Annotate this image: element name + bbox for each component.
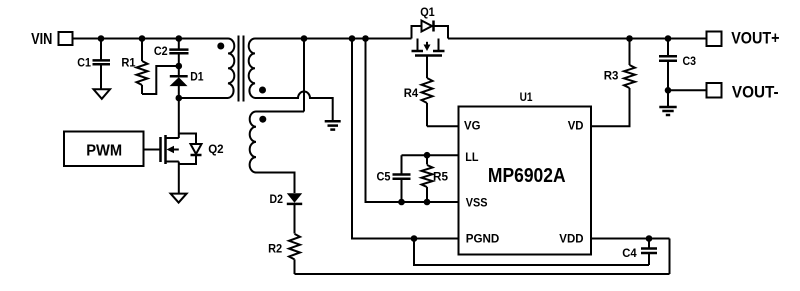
terminal pad VOUT+ (707, 32, 722, 47)
wire C4 return to PGND (414, 239, 649, 266)
wire LL row (402, 154, 459, 156)
node C2/D1/R1 junction (176, 63, 183, 70)
svg-text:R4: R4 (404, 86, 418, 100)
svg-text:R2: R2 (268, 242, 282, 256)
svg-text:LL: LL (465, 150, 479, 164)
IC U1 box (459, 107, 592, 255)
resistor R2 (289, 234, 300, 274)
svg-text:C1: C1 (77, 55, 91, 69)
transformer polarity dot auxiliary (259, 116, 266, 123)
svg-text:Q2: Q2 (208, 142, 223, 156)
junction C3 bottom (665, 87, 672, 94)
svg-text:C3: C3 (683, 54, 697, 68)
ground secondary at transformer (325, 121, 341, 129)
capacitor C3 (659, 39, 677, 91)
wire R1 bottom to D1 cathode node (142, 66, 179, 94)
svg-text:R1: R1 (121, 55, 135, 69)
svg-text:VG: VG (464, 119, 480, 133)
svg-text:MP6902A: MP6902A (488, 165, 566, 187)
capacitor C2 (169, 39, 188, 67)
transformer secondary winding (249, 39, 255, 99)
junction R3 top (626, 35, 633, 42)
svg-text:U1: U1 (520, 90, 533, 104)
svg-text:D1: D1 (190, 70, 203, 84)
wire VDD row (591, 238, 670, 240)
wire PWM to Q2 gate (144, 149, 161, 151)
resistor R4 (422, 78, 433, 126)
body diode of Q2 (179, 134, 202, 165)
svg-text:VDD: VDD (559, 232, 583, 246)
wire aux top drop (303, 39, 305, 112)
svg-text:VD: VD (568, 119, 584, 133)
transistor Q1 (412, 39, 445, 79)
PWM block (64, 132, 144, 167)
resistor R1 (137, 39, 148, 95)
junction LL/R5 (424, 152, 431, 159)
wire secondary top rail right (448, 38, 707, 40)
svg-text:C5: C5 (377, 170, 391, 184)
diode D2 (287, 193, 302, 233)
svg-text:C4: C4 (622, 246, 636, 260)
capacitor C1 (93, 39, 111, 90)
wire VDD riser (669, 239, 671, 275)
svg-text:VSS: VSS (466, 196, 488, 210)
diode D1 (170, 66, 188, 98)
junction C3 top (665, 35, 672, 42)
capacitor C4 (641, 239, 657, 266)
svg-text:C2: C2 (154, 44, 168, 58)
svg-text:D2: D2 (270, 192, 283, 206)
svg-text:VOUT-: VOUT- (732, 82, 779, 101)
wire VD pin to R3 (591, 88, 630, 126)
svg-text:VIN: VIN (31, 31, 52, 48)
node D1 anode / primary bottom / Q2 drain (176, 95, 183, 102)
capacitor C5 (393, 155, 411, 202)
transformer polarity dot secondary (259, 87, 266, 94)
svg-text:VOUT+: VOUT+ (731, 29, 779, 48)
wire VIN rail (73, 38, 228, 40)
transistor Q2 (161, 98, 179, 193)
junction PGND/C4 return (411, 235, 418, 242)
body diode of Q1 (412, 21, 449, 39)
resistor R3 (624, 39, 635, 127)
transformer polarity dot primary (217, 43, 224, 50)
transformer auxiliary winding (250, 112, 256, 173)
ground primary at C1 (94, 89, 111, 99)
ground secondary at C3 (659, 90, 676, 115)
junction C5/VSS (398, 199, 405, 206)
svg-text:Q1: Q1 (420, 5, 435, 19)
svg-text:PGND: PGND (466, 232, 500, 246)
junction aux drop (301, 35, 308, 42)
junction R1/VIN (139, 35, 146, 42)
svg-text:R3: R3 (604, 68, 619, 82)
terminal pad VOUT- (707, 83, 722, 98)
transformer T1 primary winding (228, 39, 234, 99)
transformer core (239, 36, 244, 102)
wire bottom rail R2 to VDD riser (295, 273, 670, 275)
svg-text:R5: R5 (433, 170, 448, 184)
wire secondary bottom with hop to ground (255, 92, 333, 122)
wire VSS drop to U1 (366, 39, 459, 203)
terminal pad VIN (59, 32, 73, 45)
junction C4/VDD (646, 235, 653, 242)
wire R4 to VG pin (427, 125, 458, 127)
wire PGND drop to U1 (352, 39, 458, 239)
wire aux top lead (256, 111, 304, 113)
junction C2/VIN (176, 35, 183, 42)
junction VSS drop (362, 35, 369, 42)
junction R5/VSS (424, 199, 431, 206)
wire primary bottom (179, 97, 228, 99)
ground primary at Q2 source (171, 194, 187, 203)
wire secondary top rail left (255, 38, 412, 40)
resistor R5 (422, 155, 433, 202)
junction C1/VIN (98, 35, 105, 42)
junction PGND drop (349, 35, 356, 42)
wire C3 to VOUT- pad (668, 89, 707, 91)
svg-text:PWM: PWM (86, 142, 122, 159)
wire aux bottom lead to D2 (256, 173, 295, 194)
